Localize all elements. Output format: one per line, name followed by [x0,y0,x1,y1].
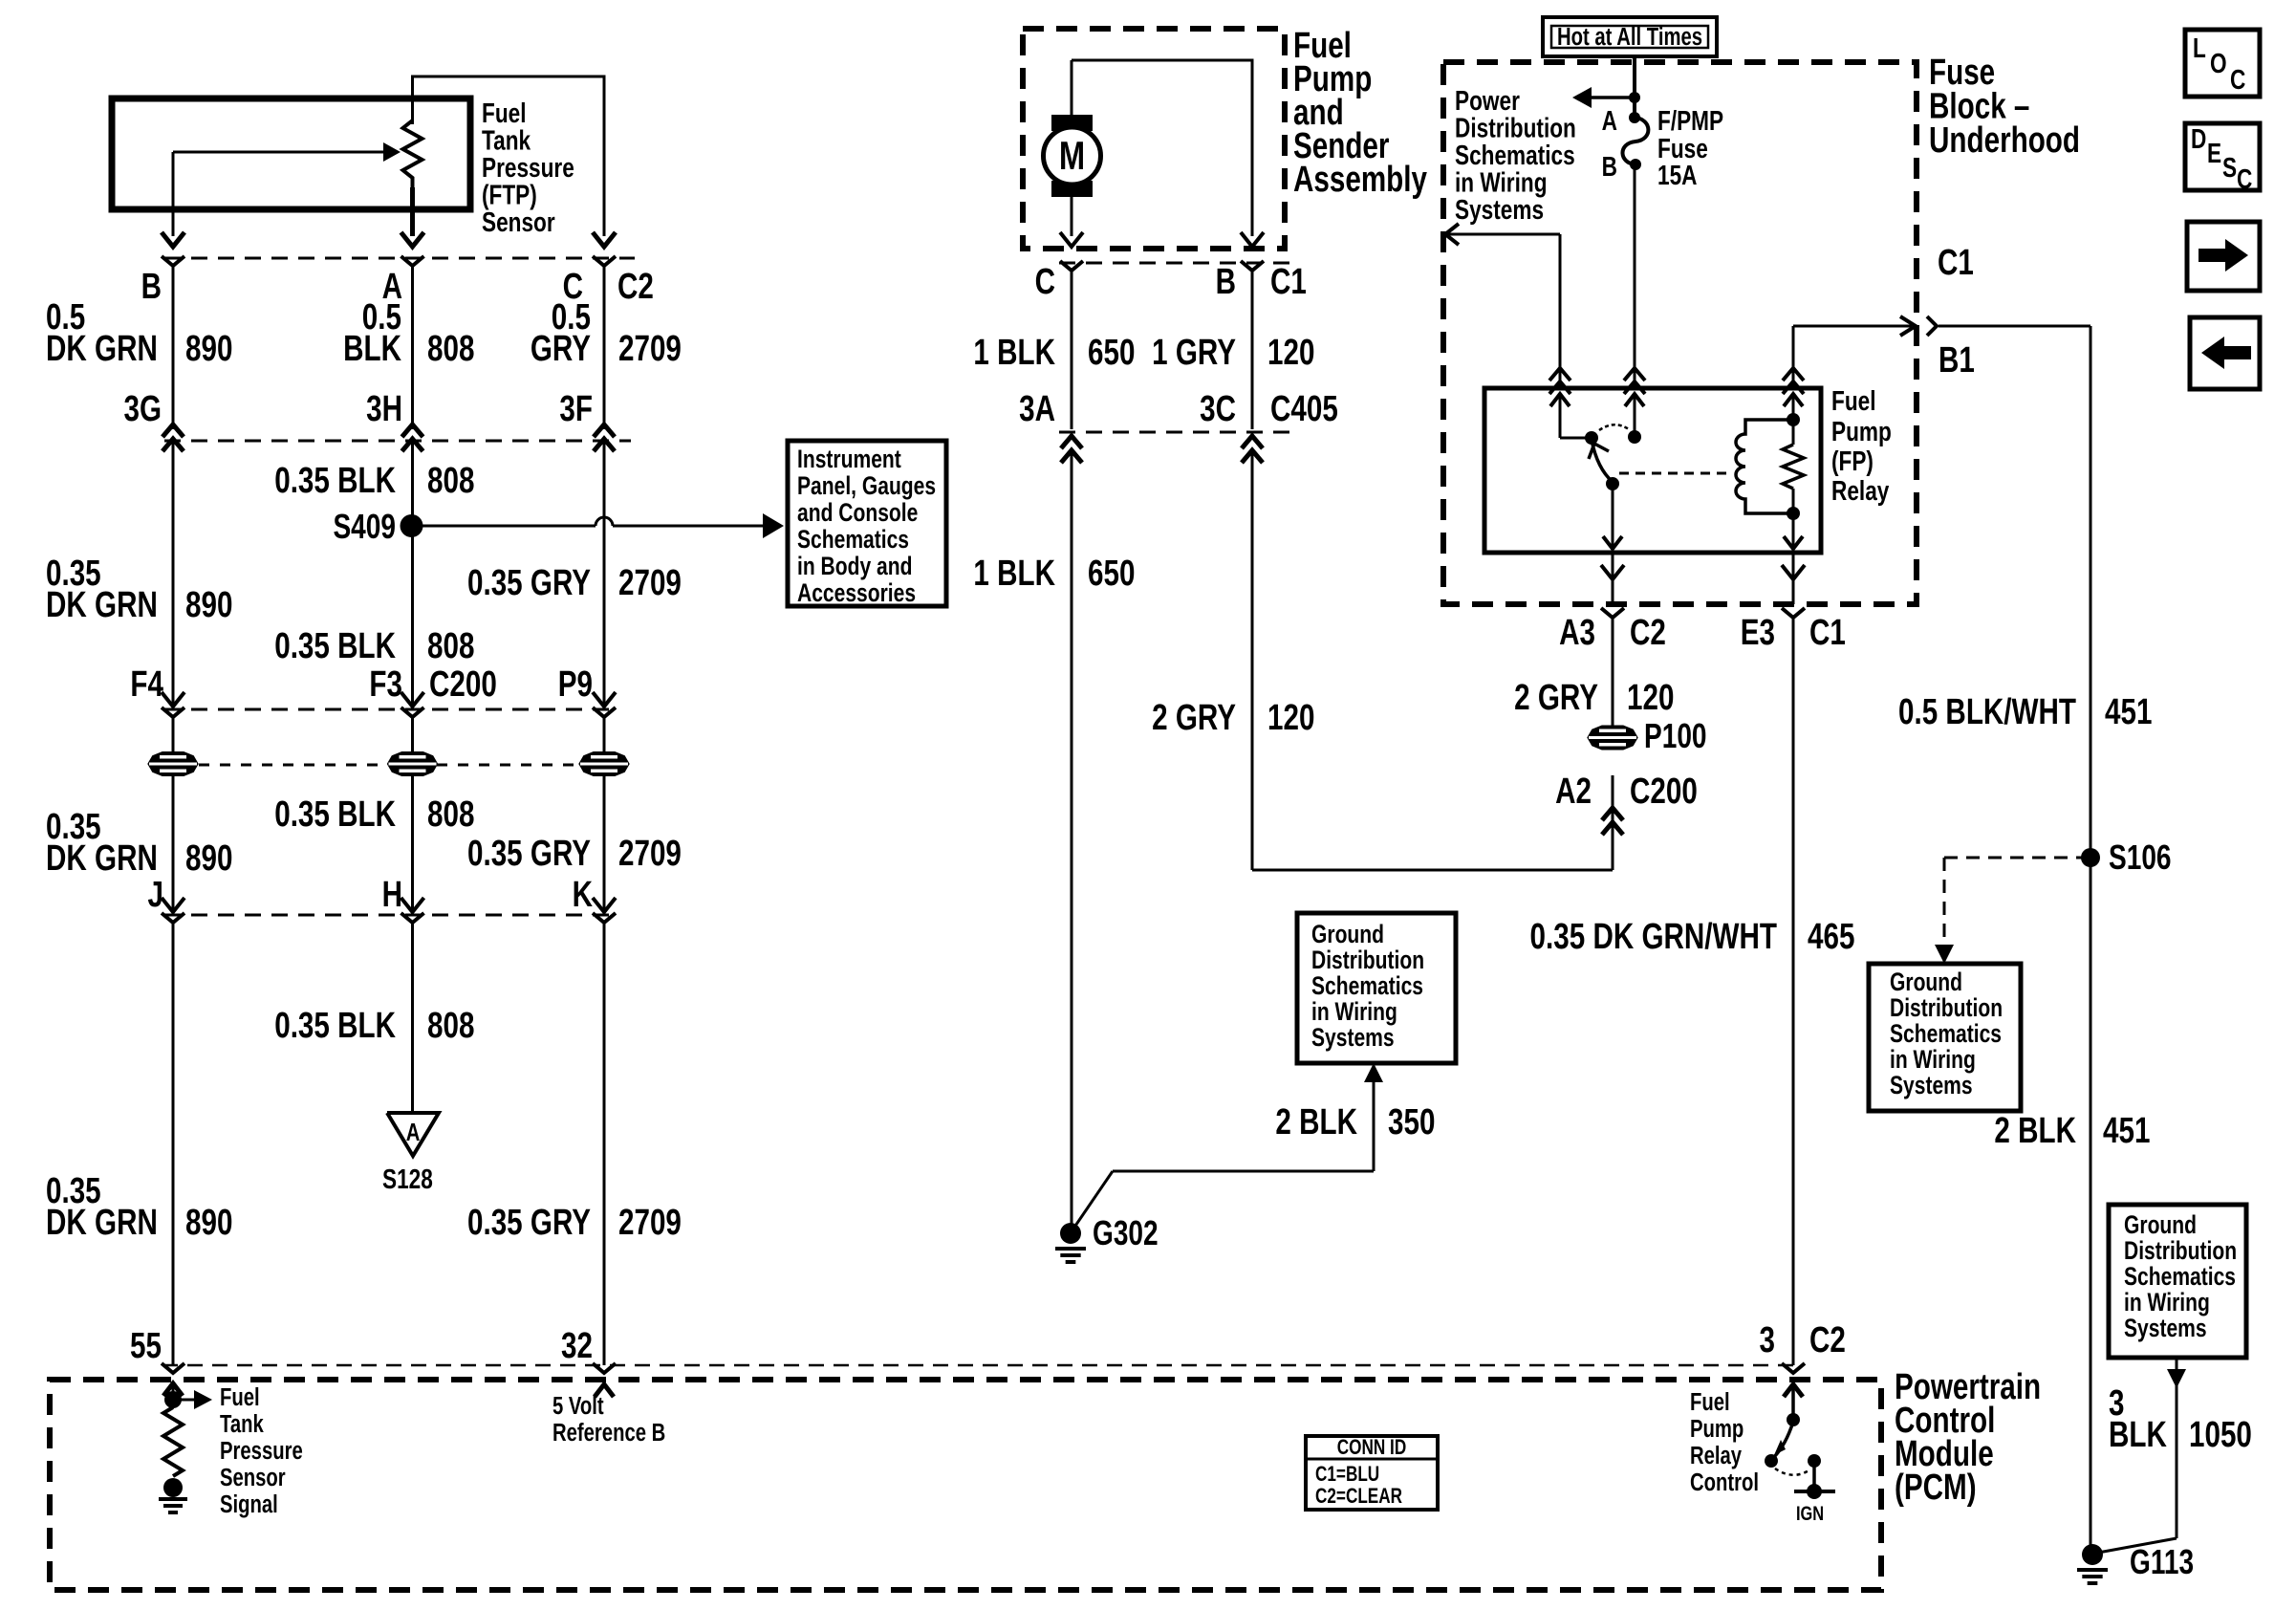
svg-text:Ground: Ground [1890,968,1962,997]
svg-text:A: A [406,1119,421,1146]
svg-text:S128: S128 [382,1163,433,1194]
svg-text:F3: F3 [369,664,402,705]
svg-text:C2: C2 [1630,613,1666,653]
svg-text:Schematics: Schematics [1890,1020,2002,1049]
svg-text:CONN ID: CONN ID [1337,1436,1406,1460]
svg-text:K: K [573,875,594,915]
svg-text:451: 451 [2105,692,2152,732]
svg-text:Pressure: Pressure [220,1437,303,1465]
svg-text:C1: C1 [1270,262,1307,302]
svg-text:120: 120 [1627,678,1674,718]
svg-text:808: 808 [427,329,474,369]
svg-text:DK GRN: DK GRN [46,1203,158,1243]
svg-text:0.35 GRY: 0.35 GRY [467,834,591,874]
svg-text:C1: C1 [1809,613,1846,653]
svg-text:G113: G113 [2130,1543,2194,1581]
svg-text:808: 808 [427,461,474,501]
svg-text:B: B [1216,262,1236,302]
svg-text:120: 120 [1267,698,1314,738]
svg-text:C: C [2237,163,2253,194]
svg-text:1 GRY: 1 GRY [1152,333,1236,373]
svg-text:1050: 1050 [2189,1415,2252,1455]
svg-text:350: 350 [1388,1102,1435,1142]
svg-text:(FP): (FP) [1831,445,1874,476]
svg-text:2 BLK: 2 BLK [1994,1111,2076,1151]
svg-text:2709: 2709 [618,329,682,369]
svg-text:in Wiring: in Wiring [2124,1289,2210,1317]
svg-text:465: 465 [1808,917,1854,957]
svg-text:2 GRY: 2 GRY [1152,698,1236,738]
svg-text:650: 650 [1088,333,1135,373]
svg-text:C1=BLU: C1=BLU [1315,1463,1379,1487]
svg-text:3C: 3C [1200,389,1236,429]
svg-text:C200: C200 [429,664,497,705]
svg-text:Systems: Systems [1890,1072,1973,1100]
svg-text:451: 451 [2103,1111,2150,1151]
svg-text:DK GRN: DK GRN [46,838,158,879]
svg-text:0.35 BLK: 0.35 BLK [274,461,396,501]
svg-text:Assembly: Assembly [1293,160,1427,200]
svg-text:Schematics: Schematics [2124,1263,2236,1292]
svg-text:2709: 2709 [618,834,682,874]
svg-text:Pump: Pump [1831,415,1892,446]
svg-text:O: O [2210,47,2227,78]
svg-text:A2: A2 [1555,772,1592,812]
svg-text:32: 32 [561,1326,593,1366]
svg-text:B: B [1602,150,1617,182]
svg-text:3: 3 [1760,1320,1775,1360]
svg-text:2 BLK: 2 BLK [1275,1102,1357,1142]
svg-text:M: M [1059,133,1085,178]
svg-text:Fuel: Fuel [1690,1388,1730,1416]
svg-text:Ground: Ground [2124,1211,2197,1240]
svg-text:C405: C405 [1270,389,1338,429]
svg-text:Control: Control [1690,1469,1759,1496]
svg-text:Distribution: Distribution [2124,1237,2237,1266]
svg-text:Systems: Systems [2124,1315,2207,1343]
svg-text:2709: 2709 [618,1203,682,1243]
svg-text:P9: P9 [558,664,593,705]
svg-text:1 BLK: 1 BLK [973,333,1055,373]
svg-text:F4: F4 [130,664,163,705]
svg-text:Underhood: Underhood [1929,120,2080,161]
svg-text:C200: C200 [1630,772,1698,812]
svg-text:in Wiring: in Wiring [1890,1046,1976,1075]
svg-text:1 BLK: 1 BLK [973,554,1055,594]
svg-text:Sensor: Sensor [482,206,555,237]
svg-text:and Console: and Console [797,499,918,528]
svg-text:890: 890 [185,585,232,625]
svg-text:DK GRN: DK GRN [46,585,158,625]
svg-text:Schematics: Schematics [1311,972,1423,1001]
svg-text:Distribution: Distribution [1890,994,2003,1023]
svg-text:3F: 3F [559,389,593,429]
svg-text:B1: B1 [1939,340,1975,381]
svg-text:Accessories: Accessories [797,579,916,608]
svg-text:DK GRN: DK GRN [46,329,158,369]
svg-text:Fuel: Fuel [1831,384,1875,416]
svg-text:890: 890 [185,838,232,879]
svg-text:D: D [2191,122,2206,154]
svg-text:Sensor: Sensor [220,1464,286,1491]
svg-text:15A: 15A [1657,159,1698,190]
svg-text:Relay: Relay [1690,1442,1742,1469]
svg-text:0.35 BLK: 0.35 BLK [274,626,396,666]
svg-text:0.5 BLK/WHT: 0.5 BLK/WHT [1898,692,2076,732]
svg-text:3G: 3G [123,389,162,429]
svg-text:C1: C1 [1938,243,1974,283]
svg-text:S106: S106 [2109,838,2172,877]
svg-text:0.35 GRY: 0.35 GRY [467,563,591,603]
svg-text:B: B [141,267,162,307]
svg-text:BLK: BLK [343,329,401,369]
svg-text:5 Volt: 5 Volt [552,1392,604,1420]
svg-text:C: C [1035,262,1055,302]
svg-text:E3: E3 [1741,613,1775,653]
svg-text:BLK: BLK [2109,1415,2167,1455]
svg-text:3A: 3A [1019,389,1055,429]
svg-text:in Body and: in Body and [797,553,912,581]
svg-text:808: 808 [427,794,474,835]
svg-text:G302: G302 [1093,1214,1159,1252]
svg-text:L: L [2193,32,2206,63]
svg-text:Systems: Systems [1311,1024,1395,1053]
svg-text:(PCM): (PCM) [1895,1468,1977,1508]
svg-text:890: 890 [185,329,232,369]
svg-text:Reference B: Reference B [552,1419,665,1447]
svg-text:2709: 2709 [618,563,682,603]
svg-text:0.35 DK GRN/WHT: 0.35 DK GRN/WHT [1530,917,1778,957]
svg-text:P100: P100 [1644,717,1707,755]
svg-text:Hot at All Times: Hot at All Times [1557,23,1702,51]
svg-text:Distribution: Distribution [1311,946,1424,975]
svg-text:650: 650 [1088,554,1135,594]
svg-text:808: 808 [427,626,474,666]
svg-text:Systems: Systems [1455,193,1544,225]
svg-text:in Wiring: in Wiring [1311,998,1397,1027]
svg-text:C2: C2 [1809,1320,1846,1360]
svg-text:Panel, Gauges: Panel, Gauges [797,472,936,501]
svg-text:S: S [2222,151,2237,183]
svg-text:Pump: Pump [1690,1415,1744,1443]
svg-text:808: 808 [427,1006,474,1046]
svg-text:120: 120 [1267,333,1314,373]
svg-text:Ground: Ground [1311,921,1384,949]
svg-text:Schematics: Schematics [797,526,909,555]
svg-text:55: 55 [130,1326,162,1366]
svg-text:C: C [2230,63,2246,95]
svg-text:2 GRY: 2 GRY [1514,678,1598,718]
svg-text:H: H [382,875,402,915]
svg-text:IGN: IGN [1796,1502,1824,1524]
svg-text:GRY: GRY [531,329,591,369]
svg-text:0.35 BLK: 0.35 BLK [274,1006,396,1046]
svg-text:Fuel: Fuel [220,1383,260,1411]
svg-text:Relay: Relay [1831,474,1890,506]
svg-text:0.35 BLK: 0.35 BLK [274,794,396,835]
svg-text:E: E [2207,137,2221,168]
svg-text:A3: A3 [1559,613,1595,653]
svg-text:J: J [148,875,163,915]
svg-text:Signal: Signal [220,1490,278,1518]
svg-text:S409: S409 [333,508,396,546]
svg-text:Instrument: Instrument [797,446,901,474]
svg-text:3H: 3H [366,389,402,429]
svg-text:A: A [1602,104,1618,136]
svg-text:Tank: Tank [220,1410,264,1438]
svg-text:0.35 GRY: 0.35 GRY [467,1203,591,1243]
svg-text:C2: C2 [617,267,654,307]
svg-text:C2=CLEAR: C2=CLEAR [1315,1485,1402,1509]
svg-text:890: 890 [185,1203,232,1243]
